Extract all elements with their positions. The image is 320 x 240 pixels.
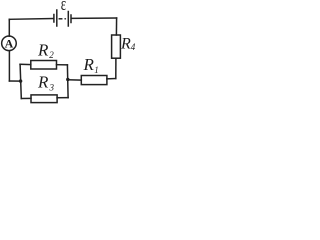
wire R2 right (57, 64, 68, 66)
resistor R4 box (112, 35, 121, 58)
battery cell 1 short plate (53, 15, 55, 23)
wire left vertical upper (8, 19, 10, 36)
battery cell 2 long plate (67, 12, 69, 27)
svg-text:A: A (5, 37, 14, 51)
battery cell 1 long plate (56, 10, 58, 26)
resistor R2 box (31, 61, 57, 70)
node junction dot left (19, 79, 22, 82)
wire left bar of parallel block (20, 64, 21, 98)
svg-text:ε: ε (61, 0, 66, 15)
wire left vertical lower (8, 51, 10, 81)
svg-text:R: R (83, 55, 95, 74)
battery break dash (59, 18, 61, 20)
wire R1 right (107, 78, 116, 80)
wire right vertical upper (115, 18, 117, 35)
resistor R1 box (81, 76, 107, 85)
wire R2 left (20, 63, 31, 65)
wire left feed to parallel block (9, 80, 20, 82)
svg-text:3: 3 (49, 82, 55, 92)
svg-text:R: R (37, 73, 49, 92)
wire bottom branch left (21, 97, 31, 99)
battery cell 2 short plate (70, 15, 72, 23)
svg-text:1: 1 (94, 65, 99, 75)
ammeter A circle (2, 36, 17, 51)
wire right vertical lower (115, 58, 117, 78)
battery break dot (64, 18, 66, 20)
svg-text:4: 4 (131, 42, 136, 52)
wire right bar of parallel block (66, 65, 69, 98)
wire bottom branch right (57, 97, 68, 99)
svg-text:R: R (37, 41, 49, 60)
svg-text:R: R (120, 36, 131, 53)
resistor R3 box (31, 95, 57, 103)
wire top-left horizontal (9, 19, 53, 21)
svg-text:2: 2 (49, 50, 54, 60)
node junction dot right (66, 78, 69, 81)
wire R1 left (68, 79, 82, 81)
wire battery to top-right corner (72, 17, 117, 19)
